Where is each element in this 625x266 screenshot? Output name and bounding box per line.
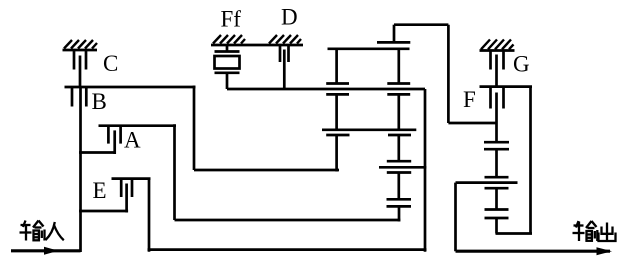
gear shaft left lower — [335, 135, 338, 172]
wire E shaft to input shaft — [79, 210, 128, 213]
output rail — [456, 250, 611, 253]
ground hatch C — [64, 40, 97, 49]
gear shaft right lower — [397, 135, 400, 161]
top coupling right riser — [447, 25, 450, 123]
svg-text:B: B — [92, 89, 107, 114]
brake C right plate — [85, 50, 88, 70]
freewheel Ff bottom cap — [215, 71, 240, 74]
brake C ground bar — [63, 49, 98, 52]
gear cap right bottom upper — [387, 160, 411, 163]
gear cap left lower — [326, 93, 349, 96]
label input (shu ru) — [20, 221, 64, 241]
brake C left plate — [73, 50, 76, 70]
label output (shu chu) — [573, 221, 616, 241]
svg-text:C: C — [103, 51, 118, 76]
svg-text:F: F — [463, 87, 476, 112]
gear cap right low — [388, 134, 411, 137]
gear shaft right column c — [495, 218, 498, 234]
ground hatch D — [269, 35, 301, 44]
clutch E left plate — [120, 179, 123, 197]
gear cap right column 2 — [484, 148, 509, 151]
wire A lower horizontal — [175, 219, 401, 222]
svg-text:D: D — [281, 5, 298, 30]
clutch B left plate — [71, 87, 74, 107]
gear cap right column 1 — [484, 141, 509, 144]
gear cap right second — [387, 93, 410, 96]
gear cap right upper — [387, 82, 410, 85]
clutch F bar — [480, 85, 533, 88]
carrier bar — [328, 47, 410, 50]
clutch A bar — [99, 124, 177, 127]
clutch E shaft — [125, 184, 128, 213]
brake G shaft — [495, 55, 498, 87]
clutch A right plate — [119, 126, 122, 144]
main input shaft vertical — [79, 87, 82, 252]
top coupling line — [394, 23, 448, 26]
brake G left plate — [489, 51, 492, 70]
gear bar middle long — [322, 128, 416, 131]
freewheel Ff upper stub — [226, 45, 229, 52]
wire B right descender — [193, 86, 196, 171]
gear cap top — [377, 41, 410, 44]
ground hatch Ff — [213, 35, 245, 44]
top coupling left riser — [393, 25, 396, 43]
wire B lower horizontal — [194, 169, 339, 172]
clutch E right plate — [131, 179, 134, 197]
wire coupling to F shaft — [448, 122, 497, 125]
svg-text:Ff: Ff — [221, 6, 242, 31]
gear mesh line lower — [379, 166, 426, 169]
clutch A left plate — [107, 126, 110, 144]
freewheel Ff box — [215, 56, 240, 69]
clutch F shaft — [495, 93, 498, 143]
wire F right descender — [529, 87, 532, 234]
gear shaft right column b — [495, 188, 498, 209]
brake G ground bar — [480, 49, 515, 52]
gear cap right column 4 — [485, 187, 509, 190]
gear cap right bottom lower — [387, 171, 411, 174]
freewheel Ff lower stub — [226, 73, 229, 89]
ground bar Ff D — [211, 44, 303, 47]
gear shaft right upper — [397, 49, 400, 84]
ground hatch G — [481, 40, 514, 50]
gear cap right column 5 — [485, 208, 509, 211]
wire A right descender — [173, 124, 176, 220]
ring riser right — [424, 89, 427, 252]
shaft of brake C — [79, 56, 82, 88]
output mesh line — [456, 181, 518, 184]
brake G right plate — [502, 51, 505, 70]
svg-text:A: A — [124, 128, 141, 153]
gear shaft sun lower — [397, 173, 400, 200]
gear shaft left middle — [335, 94, 338, 129]
brake D shaft — [283, 50, 286, 90]
svg-text:G: G — [513, 52, 530, 77]
brake D left plate — [279, 45, 282, 62]
output descender — [454, 183, 457, 252]
bottom rail central — [148, 248, 427, 251]
wire E right descender — [148, 179, 151, 252]
wire right column to F descender — [496, 232, 533, 235]
clutch A shaft — [113, 130, 116, 154]
wire Ff D ring line — [227, 88, 425, 91]
gear shaft right middle — [397, 94, 400, 129]
gear cap left upper — [326, 82, 349, 85]
output arrowhead — [597, 247, 613, 255]
clutch F right plate — [502, 87, 505, 109]
gear cap right column 3 — [485, 176, 509, 179]
svg-text:E: E — [93, 178, 107, 203]
wire A shaft to input shaft — [79, 151, 116, 154]
clutch B right plate — [85, 87, 88, 107]
input arrowhead — [44, 247, 59, 255]
gear shaft right column a — [495, 149, 498, 177]
clutch E bar — [112, 177, 151, 180]
freewheel Ff top cap — [215, 50, 240, 53]
gear cap sun lower — [387, 205, 412, 208]
gear cap left low — [326, 134, 349, 137]
gear cap right column 6 — [485, 217, 509, 220]
brake D right plate — [287, 45, 290, 62]
clutch B bar — [65, 86, 196, 89]
clutch F left plate — [489, 87, 492, 109]
gear cap sun upper — [387, 198, 412, 201]
gear shaft to A line — [398, 206, 401, 221]
input arrow line — [11, 249, 81, 252]
gear shaft left upper — [335, 49, 338, 84]
